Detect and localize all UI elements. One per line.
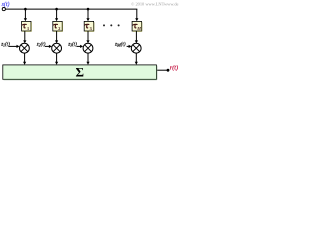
svg-text:Σ: Σ bbox=[76, 65, 85, 80]
svg-text:zM(t): zM(t) bbox=[114, 41, 126, 48]
wire arrow z2 into multiplier 2 bbox=[45, 45, 52, 48]
delay box tau_1 bbox=[22, 21, 32, 31]
delay box tau_2 bbox=[53, 21, 63, 31]
input terminal bbox=[2, 8, 5, 11]
svg-text:z3(t): z3(t) bbox=[67, 41, 77, 48]
svg-text:3: 3 bbox=[90, 26, 92, 31]
multiplier M bbox=[131, 43, 141, 53]
svg-text:1: 1 bbox=[27, 26, 29, 31]
output node bbox=[167, 69, 170, 72]
wire arrow z3 into multiplier 3 bbox=[76, 45, 83, 48]
wire arrow z1 into multiplier 1 bbox=[9, 45, 20, 48]
wire: multiplier M to summer with arrow bbox=[135, 53, 138, 65]
svg-text:2: 2 bbox=[58, 26, 60, 31]
ellipsis dots between delay 3 and delay M bbox=[103, 24, 120, 26]
svg-text:r(t): r(t) bbox=[170, 64, 178, 71]
svg-text:s(t): s(t) bbox=[2, 1, 10, 8]
wire: multiplier 2 to summer with arrow bbox=[55, 53, 58, 65]
wire: delay M to multiplier M with arrow bbox=[135, 31, 138, 43]
delay box tau_M bbox=[132, 21, 142, 31]
node junction 3 bbox=[87, 8, 90, 11]
multiplier 2 bbox=[52, 43, 62, 53]
wire: drop to delay 2 with arrow bbox=[55, 9, 58, 21]
wire: drop to delay 1 with arrow bbox=[24, 9, 27, 21]
wire: bus corner and drop to delay M with arrow bbox=[135, 9, 138, 21]
summer sigma box bbox=[3, 65, 157, 80]
delay box tau_3 bbox=[84, 21, 94, 31]
wire: multiplier 3 to summer with arrow bbox=[86, 53, 89, 65]
multiplier 3 bbox=[83, 43, 93, 53]
wire: delay 3 to multiplier 3 with arrow bbox=[86, 31, 89, 43]
wire: multiplier 1 to summer with arrow bbox=[23, 53, 26, 65]
wire arrow zM into multiplier M bbox=[127, 45, 132, 48]
wire: drop to delay 3 with arrow bbox=[86, 9, 89, 21]
node junction 1 bbox=[24, 8, 27, 11]
background bbox=[0, 0, 180, 83]
svg-text:z2(t): z2(t) bbox=[36, 41, 46, 48]
svg-text:© 2010 www.LNTwww.de: © 2010 www.LNTwww.de bbox=[131, 1, 179, 6]
wire: summer output bbox=[157, 69, 167, 71]
svg-text:M: M bbox=[136, 26, 141, 31]
wire: top horizontal bus bbox=[6, 8, 138, 10]
node junction 2 bbox=[55, 8, 58, 11]
wire: delay 2 to multiplier 2 with arrow bbox=[55, 31, 58, 43]
wire: delay 1 to multiplier 1 with arrow bbox=[23, 31, 26, 43]
multiplier 1 bbox=[20, 43, 30, 53]
